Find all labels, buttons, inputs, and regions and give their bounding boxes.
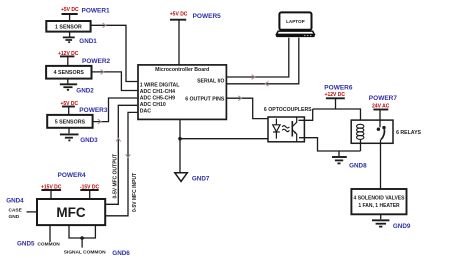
svg-text:POWER6: POWER6 [324, 84, 353, 91]
svg-text:GND5: GND5 [17, 241, 35, 248]
power symbol -15V DC (POWER4) [80, 190, 98, 199]
ground GND1 [63, 32, 75, 43]
relay switch arm [381, 129, 385, 139]
ground GND8 [332, 151, 347, 163]
sensor block 4 SENSORS [46, 66, 91, 79]
optocoupler block U2 [268, 117, 304, 142]
svg-text:ADC CH10: ADC CH10 [140, 102, 166, 108]
svg-text:LAPTOP: LAPTOP [286, 19, 305, 24]
svg-text:4 SENSORS: 4 SENSORS [54, 70, 85, 76]
svg-text:Microcontroller Board: Microcontroller Board [155, 67, 209, 73]
laptop base [276, 31, 314, 34]
svg-text:-15V DC: -15V DC [80, 185, 100, 191]
svg-text:ADC CH1-CH4: ADC CH1-CH4 [140, 89, 175, 95]
laptop ports dots [304, 35, 305, 36]
ground GND2 [60, 79, 77, 90]
wire collector to +12V rail [299, 109, 313, 120]
arrow on wire1 [103, 23, 106, 28]
MFC block [37, 199, 105, 225]
svg-text:6 OPTOCOUPLERS: 6 OPTOCOUPLERS [264, 107, 312, 113]
optical coupling squiggles [282, 126, 289, 132]
optocoupler LED [273, 119, 280, 139]
arrow on wire2 [101, 70, 104, 75]
wire serial in laptop to MCU [227, 38, 299, 84]
svg-text:COMMON: COMMON [37, 241, 60, 247]
wire DAC to MFC input [105, 112, 137, 215]
power symbol POWER6 (+12V DC) [326, 98, 345, 109]
phototransistor emitter arrow [294, 131, 297, 134]
svg-text:POWER3: POWER3 [79, 107, 108, 114]
svg-text:+5V DC: +5V DC [170, 12, 188, 18]
power symbol +15V DC (POWER4) [41, 190, 61, 199]
sensor block 5 SENSORS [47, 115, 92, 128]
arrow on output wire [238, 96, 241, 101]
wire MFC output to ADC CH10 [105, 105, 137, 204]
svg-text:1 FAN, 1 HEATER: 1 FAN, 1 HEATER [358, 203, 400, 209]
junction node signal common [80, 236, 84, 240]
svg-text:+15V DC: +15V DC [41, 185, 62, 191]
wire signal common down [81, 238, 83, 248]
junction node at ground rail [178, 137, 182, 141]
wire 1 SENSOR to 1 WIRE DIGITAL pin [91, 25, 138, 81]
power symbol POWER5 (+5V DC) [170, 20, 186, 65]
wire MCU ground down to GND7 [179, 119, 181, 172]
svg-text:ADC CH5-CH9: ADC CH5-CH9 [140, 95, 175, 101]
svg-text:1 SENSOR: 1 SENSOR [55, 24, 82, 30]
svg-text:GND3: GND3 [80, 137, 98, 144]
wire emitter to relay ground rail [299, 138, 361, 151]
wire +12V rail to relay coil [313, 109, 361, 125]
svg-text:0-5V MFC OUTPUT: 0-5V MFC OUTPUT [113, 154, 119, 199]
svg-text:POWER5: POWER5 [193, 13, 222, 20]
svg-text:+12V DC: +12V DC [325, 92, 346, 98]
wire MFC common stub [49, 225, 51, 242]
svg-text:GND9: GND9 [393, 223, 411, 230]
arrow down on MFC input wire [126, 154, 131, 157]
ground GND3 [60, 128, 79, 141]
svg-text:GND2: GND2 [76, 87, 94, 94]
svg-text:POWER2: POWER2 [82, 58, 111, 65]
wire case gnd to MFC [27, 211, 38, 213]
svg-text:0-5V MFC INPUT: 0-5V MFC INPUT [132, 173, 138, 212]
svg-text:+12V DC: +12V DC [58, 51, 79, 57]
wire MFC signal common stubs [69, 225, 95, 238]
svg-text:1 WIRE DIGITAL: 1 WIRE DIGITAL [140, 82, 181, 88]
svg-text:6 RELAYS: 6 RELAYS [396, 130, 421, 136]
svg-text:CASE: CASE [9, 208, 23, 214]
wire relay coil to ground rail [360, 140, 362, 151]
power symbol POWER1 (+5V DC) [62, 14, 78, 21]
svg-text:GND7: GND7 [192, 175, 210, 182]
svg-text:GND8: GND8 [349, 163, 367, 170]
svg-text:SIGNAL COMMON: SIGNAL COMMON [64, 250, 106, 256]
arrow serial out [252, 75, 255, 80]
svg-text:+5V DC: +5V DC [61, 7, 79, 13]
load block 4 SOLENOID VALVES / 1 FAN, 1 HEATER [351, 189, 406, 214]
optocoupler phototransistor [292, 117, 296, 142]
svg-text:+5V DC: +5V DC [60, 101, 78, 107]
wire 4 SENSORS to ADC CH1-CH4 pin [92, 72, 138, 91]
svg-text:GND6: GND6 [112, 250, 130, 257]
wire 6 OUTPUT PINS to optocoupler input [227, 98, 268, 118]
svg-text:SERIAL I/O: SERIAL I/O [197, 79, 224, 85]
svg-text:GND: GND [9, 214, 20, 220]
microcontroller board U1 [138, 65, 226, 120]
arrow on wire3 [98, 119, 101, 124]
ground GND9 [372, 214, 389, 226]
svg-text:5 SENSORS: 5 SENSORS [55, 120, 86, 126]
svg-text:DAC: DAC [140, 109, 151, 115]
svg-text:POWER1: POWER1 [82, 8, 111, 15]
power symbol POWER2 (+12V DC) [60, 56, 74, 66]
wire digital ground rail (MCU to LED cathode) [180, 138, 276, 140]
power symbol POWER7 (24V AC) [373, 110, 388, 128]
ground GND7 (open triangle) [175, 173, 188, 182]
wire 5 SENSORS to ADC CH5-CH9 pin [93, 98, 138, 122]
svg-text:6 OUTPUT PINS: 6 OUTPUT PINS [185, 96, 225, 102]
laptop screen [279, 12, 311, 29]
svg-text:24V AC: 24V AC [372, 104, 390, 110]
svg-text:4 SOLENOID VALVES: 4 SOLENOID VALVES [354, 196, 406, 202]
wire relay output to solenoid valves [380, 140, 382, 189]
svg-text:POWER7: POWER7 [369, 95, 398, 102]
wire serial out MCU to laptop [227, 38, 289, 77]
svg-text:POWER4: POWER4 [58, 172, 87, 179]
arrow up on MFC output wire [116, 138, 121, 141]
svg-text:GND1: GND1 [79, 38, 97, 45]
svg-text:GND4: GND4 [6, 198, 24, 205]
sensor block 1 SENSOR [46, 21, 90, 32]
relay switch contacts [377, 128, 380, 131]
relay block K1 [351, 120, 393, 143]
relay coil [357, 124, 364, 139]
svg-text:MFC: MFC [56, 205, 85, 220]
arrow serial in [265, 81, 268, 86]
power symbol POWER3 (+5V DC) [62, 107, 75, 115]
